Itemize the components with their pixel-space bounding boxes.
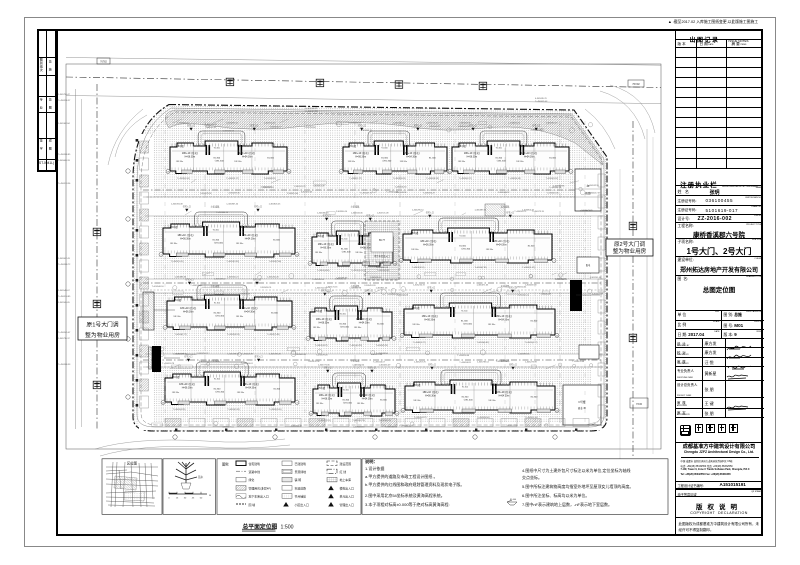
svg-text:3-305217.37: 3-305217.37 — [589, 193, 601, 195]
svg-text:4-305108.84: 4-305108.84 — [395, 192, 407, 194]
svg-text:T+4903(6.76): T+4903(6.76) — [352, 420, 365, 422]
svg-text:T+490594.29: T+490594.29 — [423, 193, 436, 195]
svg-text:管理出入口: 管理出入口 — [340, 502, 355, 507]
svg-text:T+490500.61: T+490500.61 — [241, 363, 254, 365]
svg-text:单元出入口: 单元出入口 — [340, 494, 355, 499]
svg-text:住宅建筑: 住宅建筑 — [249, 461, 261, 466]
svg-text:1-305549.67: 1-305549.67 — [58, 290, 71, 292]
svg-text:60: 60 — [200, 498, 203, 500]
svg-text:T+4903(3.97): T+4903(3.97) — [546, 178, 559, 180]
svg-text:T+4903(8.93): T+4903(8.93) — [227, 334, 240, 336]
svg-text:1-305738.14: 1-305738.14 — [477, 362, 490, 364]
svg-text:H=54.30m: H=54.30m — [244, 311, 255, 313]
svg-text:整为物业用房: 整为物业用房 — [613, 247, 647, 255]
svg-text:H=56.30m: H=56.30m — [355, 156, 366, 158]
svg-text:T+490540.16: T+490540.16 — [152, 286, 165, 288]
svg-text:2-305047.71: 2-305047.71 — [429, 126, 441, 128]
svg-text:绿化: 绿化 — [249, 477, 255, 482]
svg-text:T+4903(3.87): T+4903(3.87) — [315, 345, 328, 347]
svg-text:81.300: 81.300 — [462, 396, 469, 398]
svg-text:18F+1F (住宅): 18F+1F (住宅) — [422, 390, 438, 394]
svg-text:道路中线: 道路中线 — [249, 469, 261, 474]
svg-text:1-305893.56: 1-305893.56 — [518, 353, 530, 355]
svg-text:¶1.300: ¶1.300 — [340, 313, 347, 315]
svg-text:5.图中所标注建筑物高度均指室外地坪至屋顶女儿墙顶的高度。: 5.图中所标注建筑物高度均指室外地坪至屋顶女儿墙顶的高度。 — [522, 483, 633, 489]
svg-text:T+4903(5.27): T+4903(5.27) — [413, 342, 426, 344]
svg-text:18F+1F (住宅): 18F+1F (住宅) — [177, 233, 193, 237]
svg-text:T+4903(0.94): T+4903(0.94) — [177, 178, 190, 180]
svg-text:原2号大门调: 原2号大门调 — [614, 240, 645, 248]
svg-text:已建建筑: 已建建筑 — [295, 461, 307, 466]
svg-text:T+4903(6.82): T+4903(6.82) — [477, 342, 490, 344]
svg-text:81.300: 81.300 — [271, 313, 278, 315]
svg-text:1-305032.03: 1-305032.03 — [349, 123, 362, 125]
svg-text:地下车库出入口: 地下车库出入口 — [249, 494, 269, 499]
svg-text:18F+1F (住宅): 18F+1F (住宅) — [180, 306, 196, 310]
svg-text:¶1.300: ¶1.300 — [214, 302, 221, 304]
svg-text:H=54.30m: H=54.30m — [245, 387, 256, 389]
svg-text:景观绿地: 景观绿地 — [295, 469, 307, 474]
svg-text:81.300: 81.300 — [461, 321, 468, 323]
svg-text:T+4903(4.17): T+4903(4.17) — [525, 342, 538, 344]
svg-text:T+490533.66: T+490533.66 — [385, 427, 398, 429]
svg-text:4.图纸中尺寸为土建外包尺寸标注以米为单位,定位坐标为轴线: 4.图纸中尺寸为土建外包尺寸标注以米为单位,定位坐标为轴线 — [522, 467, 630, 473]
svg-text:18F 86a: 18F 86a — [313, 327, 321, 329]
svg-text:√291.300: √291.300 — [215, 315, 225, 318]
svg-text:81.300: 81.300 — [381, 157, 388, 159]
svg-text:T+4903(0.87): T+4903(0.87) — [414, 417, 427, 419]
svg-text:T+490518.78: T+490518.78 — [162, 363, 175, 365]
svg-text:1-305633.46: 1-305633.46 — [351, 213, 364, 215]
svg-text:T+490035.03: T+490035.03 — [535, 101, 548, 103]
svg-text:18F 86a: 18F 86a — [348, 161, 356, 163]
svg-text:18F+1F (住宅): 18F+1F (住宅) — [239, 151, 255, 155]
svg-text:T+4903(8.96): T+4903(8.96) — [477, 417, 490, 419]
svg-text:4-305803.99: 4-305803.99 — [361, 130, 373, 132]
svg-text:√291.300: √291.300 — [382, 159, 392, 162]
svg-text:T+490557.92: T+490557.92 — [360, 192, 373, 194]
svg-text:T+4903(2.47): T+4903(2.47) — [522, 267, 535, 269]
svg-text:T+490560.15: T+490560.15 — [216, 212, 229, 214]
svg-text:1-305469.18: 1-305469.18 — [525, 285, 538, 287]
svg-text:T+4903(3.12): T+4903(3.12) — [412, 267, 425, 269]
svg-text:说明：: 说明： — [365, 458, 378, 465]
svg-text:H=54.30m: H=54.30m — [359, 322, 370, 324]
svg-text:81.600: 81.600 — [510, 499, 517, 501]
svg-text:86.77: 86.77 — [379, 239, 386, 242]
svg-text:18F 86a: 18F 86a — [400, 161, 408, 163]
svg-text:T+4903(8.53): T+4903(8.53) — [426, 178, 439, 180]
svg-text:1-305750.64: 1-305750.64 — [304, 127, 316, 129]
svg-text:T+4903(7.48): T+4903(7.48) — [267, 334, 280, 336]
svg-text:交点坐标。: 交点坐标。 — [522, 474, 542, 480]
svg-text:18F+1F (住宅): 18F+1F (住宅) — [182, 151, 198, 155]
svg-text:18F 86a: 18F 86a — [516, 161, 524, 163]
svg-text:1-305296.10: 1-305296.10 — [412, 210, 425, 212]
svg-text:81.300: 81.300 — [339, 324, 346, 326]
svg-text:T+4903(1.27): T+4903(1.27) — [349, 178, 362, 180]
svg-text:H=56.30m: H=56.30m — [423, 244, 434, 246]
svg-text:4-305035.70: 4-305035.70 — [535, 98, 548, 100]
svg-text:楼栋出入口: 楼栋出入口 — [340, 485, 355, 490]
svg-text:T+4903(9.24): T+4903(9.24) — [351, 270, 364, 272]
svg-text:小区出入口: 小区出入口 — [295, 502, 310, 507]
svg-text:M: M — [209, 495, 211, 497]
svg-text:1-305790.12: 1-305790.12 — [197, 353, 209, 355]
svg-text:81.300: 81.300 — [214, 388, 221, 390]
svg-text:√291.300: √291.300 — [343, 401, 353, 404]
svg-text:T+490535.90: T+490535.90 — [395, 187, 408, 189]
svg-text:1-305302.84: 1-305302.84 — [58, 123, 71, 125]
svg-text:T+4903(0.29): T+4903(0.29) — [349, 345, 362, 347]
svg-text:H=54.30m: H=54.30m — [496, 244, 507, 246]
svg-text:H=54.30m: H=54.30m — [498, 319, 509, 321]
svg-text:0: 0 — [168, 498, 170, 500]
svg-text:15: 15 — [176, 498, 179, 500]
svg-text:√291.300: √291.300 — [214, 242, 224, 245]
svg-text:T+490540.43: T+490540.43 — [185, 354, 198, 356]
svg-text:1-305773.06: 1-305773.06 — [318, 365, 331, 367]
svg-text:18F+1F (住宅): 18F+1F (住宅) — [243, 382, 259, 386]
svg-text:¶1.300: ¶1.300 — [382, 148, 389, 150]
svg-text:18F+1F (住宅): 18F+1F (住宅) — [464, 151, 480, 155]
svg-text:T+490566.53: T+490566.53 — [555, 279, 568, 281]
svg-text:市政道路: 市政道路 — [295, 485, 307, 490]
svg-text:节点铺装: 节点铺装 — [295, 494, 307, 499]
svg-text:√291.300: √291.300 — [463, 323, 473, 326]
svg-text:81.300: 81.300 — [429, 157, 436, 159]
svg-text:¶1.300: ¶1.300 — [213, 229, 220, 231]
svg-text:1-305505.65: 1-305505.65 — [58, 302, 71, 304]
svg-text:1-305650.21: 1-305650.21 — [227, 277, 240, 279]
svg-text:T+4903(6.43): T+4903(6.43) — [508, 178, 521, 180]
svg-text:T+490579.26: T+490579.26 — [316, 354, 329, 356]
svg-text:4-305319.10: 4-305319.10 — [201, 295, 213, 297]
svg-text:81.300: 81.300 — [377, 324, 384, 326]
svg-text:2-305459.51: 2-305459.51 — [260, 287, 272, 289]
svg-text:18F 86a: 18F 86a — [316, 403, 324, 405]
svg-text:3-305088.92: 3-305088.92 — [498, 192, 510, 194]
svg-text:T+4903(2.65): T+4903(2.65) — [269, 409, 282, 411]
svg-text:H=54.30m: H=54.30m — [242, 156, 253, 158]
svg-text:18F 86a: 18F 86a — [236, 316, 244, 318]
svg-text:T+49003.51: T+49003.51 — [205, 127, 217, 129]
svg-text:¶1.300: ¶1.300 — [462, 387, 469, 389]
svg-text:1-305825.20: 1-305825.20 — [508, 123, 521, 125]
svg-text:18F 86a: 18F 86a — [412, 324, 420, 326]
svg-text:T+490515.65: T+490515.65 — [539, 294, 552, 296]
svg-text:18F+1F (住宅): 18F+1F (住宅) — [319, 393, 335, 397]
svg-text:H=56.30m: H=56.30m — [425, 395, 436, 397]
svg-text:H=56.30m: H=56.30m — [183, 311, 194, 313]
svg-text:T+490516.07: T+490516.07 — [373, 362, 386, 364]
svg-text:3.本子项相对标高±0.000等于绝对标高黄海高程:: 3.本子项相对标高±0.000等于绝对标高黄海高程: — [365, 501, 450, 507]
svg-text:T+490573.39: T+490573.39 — [532, 211, 545, 213]
svg-text:1-305671.63: 1-305671.63 — [477, 285, 490, 287]
svg-text:√291.300: √291.300 — [340, 326, 350, 329]
svg-text:2-305269.36: 2-305269.36 — [228, 192, 240, 194]
svg-text:H=54.30m: H=54.30m — [524, 156, 535, 158]
svg-text:T+4903(8.11): T+4903(8.11) — [264, 178, 277, 180]
svg-text:30: 30 — [184, 498, 187, 500]
svg-text:18F 86a: 18F 86a — [486, 249, 494, 251]
svg-text:18F 86a: 18F 86a — [237, 392, 245, 394]
svg-text:√291.300: √291.300 — [461, 248, 471, 251]
svg-text:3-305023.59: 3-305023.59 — [592, 294, 604, 296]
svg-text:18F 86a: 18F 86a — [357, 403, 365, 405]
svg-text:2-305414.44: 2-305414.44 — [287, 193, 299, 195]
svg-text:1-305754.13: 1-305754.13 — [264, 123, 277, 125]
svg-text:T+4903(1.77): T+4903(1.77) — [175, 334, 188, 336]
svg-text:T+490532.55: T+490532.55 — [587, 185, 600, 187]
svg-text:T+490508.11: T+490508.11 — [459, 362, 472, 364]
svg-text:18F 86a: 18F 86a — [236, 243, 244, 245]
svg-text:H=56.30m: H=56.30m — [322, 398, 333, 400]
svg-text:81.300: 81.300 — [213, 157, 220, 159]
svg-text:T+4903(9.33): T+4903(9.33) — [226, 261, 239, 263]
svg-text:18F+1F (住宅): 18F+1F (住宅) — [353, 151, 369, 155]
svg-text:81.300: 81.300 — [267, 157, 274, 159]
svg-text:T+4903(7.81): T+4903(7.81) — [475, 267, 488, 269]
svg-text:T+490586.72: T+490586.72 — [58, 264, 71, 266]
svg-text:T+490510.77: T+490510.77 — [270, 126, 283, 128]
svg-text:1-305598.54: 1-305598.54 — [227, 354, 240, 356]
svg-text:1-305967.43: 1-305967.43 — [58, 258, 71, 260]
svg-text:√291.300: √291.300 — [215, 390, 225, 393]
svg-text:4-305018.05: 4-305018.05 — [205, 124, 218, 126]
svg-text:18F+1F (住宅): 18F+1F (住宅) — [420, 239, 436, 243]
svg-text:81.300: 81.300 — [214, 313, 221, 315]
svg-text:2-305528.02: 2-305528.02 — [214, 279, 226, 281]
svg-text:¶1.300: ¶1.300 — [343, 390, 350, 392]
svg-text:T+490508.56: T+490508.56 — [376, 353, 389, 355]
svg-text:1:500: 1:500 — [281, 525, 294, 531]
svg-text:1-305257.70: 1-305257.70 — [414, 362, 427, 364]
svg-text:¶1.300: ¶1.300 — [496, 148, 503, 150]
svg-text:18F 86a: 18F 86a — [458, 161, 466, 163]
svg-text:18F 86a: 18F 86a — [172, 392, 180, 394]
svg-text:18F+1F (住宅): 18F+1F (住宅) — [356, 317, 372, 321]
svg-text:1-305867.44: 1-305867.44 — [226, 204, 239, 206]
svg-text:T+490513.96: T+490513.96 — [58, 183, 71, 185]
svg-text:b.甲方提供的红线图和政府规划管理资料及现状电子版。: b.甲方提供的红线图和政府规划管理资料及现状电子版。 — [365, 481, 464, 487]
svg-text:T+4903(1.45): T+4903(1.45) — [171, 261, 184, 263]
svg-text:18F 86a: 18F 86a — [355, 252, 363, 254]
svg-text:18F+1F (住宅): 18F+1F (住宅) — [179, 382, 195, 386]
svg-text:2-305174.16: 2-305174.16 — [326, 287, 338, 289]
svg-text:2-305154.10: 2-305154.10 — [335, 278, 347, 280]
svg-text:¶1.300: ¶1.300 — [461, 310, 468, 312]
svg-text:T+490545.07: T+490545.07 — [58, 332, 71, 334]
svg-text:81.300: 81.300 — [380, 399, 387, 401]
svg-text:81.300: 81.300 — [531, 396, 538, 398]
svg-text:2-305960.14: 2-305960.14 — [336, 211, 348, 213]
svg-text:T+4903(3.17): T+4903(3.17) — [226, 178, 239, 180]
svg-text:T+490565.73: T+490565.73 — [514, 211, 527, 213]
svg-text:T+490531.04: T+490531.04 — [312, 279, 325, 281]
svg-text:18F+1F (住宅): 18F+1F (住宅) — [242, 233, 258, 237]
svg-text:地上车库: 地上车库 — [340, 477, 352, 482]
svg-text:H=56.30m: H=56.30m — [320, 247, 331, 249]
svg-text:2.图中采用北京54坐标系统及黄海高程系统。: 2.图中采用北京54坐标系统及黄海高程系统。 — [365, 492, 445, 498]
svg-text:红 线: 红 线 — [340, 469, 347, 474]
svg-text:¶1.300: ¶1.300 — [460, 235, 467, 237]
svg-text:2-305021.01: 2-305021.01 — [518, 294, 530, 296]
svg-text:T+4903(0.97): T+4903(0.97) — [459, 178, 472, 180]
svg-text:管理用房(多层4F): 管理用房(多层4F) — [249, 485, 272, 490]
svg-text:区位图: 区位图 — [127, 461, 138, 466]
svg-text:18F 86a: 18F 86a — [488, 324, 496, 326]
svg-text:H=54.30m: H=54.30m — [362, 398, 373, 400]
svg-text:18F 86a: 18F 86a — [234, 161, 242, 163]
svg-text:1-305370.28: 1-305370.28 — [269, 354, 282, 356]
svg-text:1-305654.14: 1-305654.14 — [177, 123, 190, 125]
svg-text:18F+1F (住宅): 18F+1F (住宅) — [404, 151, 420, 155]
svg-text:4-305003.33: 4-305003.33 — [458, 126, 470, 128]
svg-text:1-305273.98: 1-305273.98 — [525, 362, 538, 364]
svg-text:18F+1F (住宅): 18F+1F (住宅) — [422, 314, 438, 318]
svg-text:1-305574.25: 1-305574.25 — [426, 123, 439, 125]
svg-text:1-305603.35: 1-305603.35 — [459, 123, 472, 125]
svg-text:H=56.30m: H=56.30m — [182, 387, 193, 389]
svg-text:18F 86a: 18F 86a — [488, 400, 496, 402]
svg-text:整为物业用房: 整为物业用房 — [85, 331, 120, 339]
svg-text:T+4903(9.03): T+4903(9.03) — [393, 178, 406, 180]
svg-text:18F+1F (住宅): 18F+1F (住宅) — [316, 317, 332, 321]
svg-text:T+490578.48: T+490578.48 — [572, 361, 585, 363]
svg-text:H=56.30m: H=56.30m — [180, 238, 191, 240]
svg-text:4-305527.51: 4-305527.51 — [222, 427, 234, 429]
svg-text:1-305401.56: 1-305401.56 — [547, 193, 559, 195]
svg-text:81.300: 81.300 — [495, 157, 502, 159]
svg-text:T+490596.57: T+490596.57 — [58, 100, 71, 102]
svg-text:X=305080.91: X=305080.91 — [305, 108, 318, 110]
svg-text:H=54.30m: H=54.30m — [499, 395, 510, 397]
svg-text:1-305238.64: 1-305238.64 — [393, 123, 406, 125]
svg-text:T+4903(5.51): T+4903(5.51) — [376, 345, 389, 347]
svg-text:4-305869.86: 4-305869.86 — [553, 186, 565, 188]
svg-text:Y=490012.28: Y=490012.28 — [305, 111, 318, 113]
svg-text:18F 86a: 18F 86a — [315, 252, 323, 254]
svg-text:1-305809.35: 1-305809.35 — [239, 294, 251, 296]
svg-text:81.300: 81.300 — [341, 249, 348, 251]
svg-text:18F+1F (住宅): 18F+1F (住宅) — [318, 242, 334, 246]
svg-text:7.图中nF表示建筑地上层数，-nF表示地下室层数。: 7.图中nF表示建筑地上层数，-nF表示地下室层数。 — [522, 501, 612, 507]
svg-text:H=56.30m: H=56.30m — [319, 322, 330, 324]
svg-text:原1号大门调: 原1号大门调 — [86, 321, 118, 329]
svg-text:18F+1F (住宅): 18F+1F (住宅) — [359, 393, 375, 397]
svg-text:√291.300: √291.300 — [341, 251, 351, 254]
svg-text:1-305826.05: 1-305826.05 — [269, 204, 282, 206]
svg-text:1-305686.34: 1-305686.34 — [175, 277, 188, 279]
svg-text:6.图中所注坐标、标高均以米为单位。: 6.图中所注坐标、标高均以米为单位。 — [522, 492, 589, 498]
svg-text:1-305642.20: 1-305642.20 — [352, 365, 365, 367]
svg-text:3-305019.43: 3-305019.43 — [301, 192, 313, 194]
svg-text:铺 砌: 铺 砌 — [295, 477, 302, 482]
svg-text:3-305524.08: 3-305524.08 — [397, 294, 409, 296]
svg-text:√291.300: √291.300 — [463, 398, 473, 401]
svg-text:18F 86a: 18F 86a — [176, 161, 184, 163]
svg-text:81.300: 81.300 — [342, 399, 349, 401]
svg-text:H=56.30m: H=56.30m — [467, 156, 478, 158]
svg-text:81.300: 81.300 — [273, 388, 280, 390]
svg-text:¶1.300: ¶1.300 — [214, 148, 221, 150]
svg-text:T+490528.80: T+490528.80 — [190, 285, 203, 287]
svg-text:18F+1F (住宅): 18F+1F (住宅) — [241, 306, 257, 310]
svg-text:商业 3F: 商业 3F — [578, 406, 587, 410]
svg-text:81.300: 81.300 — [528, 246, 535, 248]
svg-text:1-305080.70: 1-305080.70 — [317, 213, 330, 215]
svg-text:图例:: 图例: — [222, 462, 229, 467]
svg-text:81.300: 81.300 — [531, 321, 538, 323]
svg-text:围 墙: 围 墙 — [249, 502, 256, 507]
svg-text:T+490550.64: T+490550.64 — [514, 286, 527, 288]
svg-text:76X02: 76X02 — [632, 82, 640, 86]
svg-text:¶1.300: ¶1.300 — [341, 238, 348, 240]
svg-text:3-305651.28: 3-305651.28 — [313, 186, 325, 188]
svg-text:3-305278.05: 3-305278.05 — [200, 193, 212, 195]
svg-text:a.甲方提供的道路及市政工程设计图纸 。: a.甲方提供的道路及市政工程设计图纸 。 — [365, 473, 437, 479]
svg-text:81.300: 81.300 — [212, 240, 219, 242]
svg-text:N号楼: N号楼 — [578, 400, 585, 404]
svg-text:T+490522.18: T+490522.18 — [496, 361, 509, 363]
svg-text:¶1.300: ¶1.300 — [214, 379, 221, 381]
svg-text:√291.300: √291.300 — [215, 159, 225, 162]
svg-text:18F+1F (住宅): 18F+1F (住宅) — [496, 314, 512, 318]
svg-text:81.300: 81.300 — [273, 240, 280, 242]
svg-text:18F 86a: 18F 86a — [170, 243, 178, 245]
svg-text:2-305435.09: 2-305435.09 — [370, 277, 382, 279]
svg-text:18F 86a: 18F 86a — [411, 249, 419, 251]
svg-text:1-305407.62: 1-305407.62 — [263, 187, 275, 189]
svg-text:1.设计依据: 1.设计依据 — [365, 465, 384, 471]
svg-text:81.300: 81.300 — [459, 246, 466, 248]
svg-text:T+490594.06: T+490594.06 — [457, 355, 470, 357]
svg-text:建设范围: 建设范围 — [340, 461, 352, 466]
svg-text:T+4903(9.51): T+4903(9.51) — [227, 409, 240, 411]
svg-text:45: 45 — [192, 498, 195, 500]
svg-text:81.300: 81.300 — [549, 157, 556, 159]
svg-text:1-305065.49: 1-305065.49 — [379, 365, 392, 367]
svg-text:T+4903(7.68): T+4903(7.68) — [269, 261, 282, 263]
svg-text:H=54.30m: H=54.30m — [406, 156, 417, 158]
svg-text:3-305613.31: 3-305613.31 — [223, 130, 235, 132]
svg-text:T+4903(4.80): T+4903(4.80) — [317, 270, 330, 272]
svg-text:18F 86a: 18F 86a — [413, 400, 421, 402]
svg-text:1-305669.33: 1-305669.33 — [58, 160, 71, 162]
svg-text:X=305084.63: X=305084.63 — [376, 262, 389, 264]
svg-text:18F+1F (住宅): 18F+1F (住宅) — [493, 239, 509, 243]
svg-text:7X30: 7X30 — [636, 402, 643, 406]
svg-text:1-305250.20: 1-305250.20 — [267, 277, 280, 279]
svg-text:76782: 76782 — [100, 61, 107, 64]
svg-text:4-305403.13: 4-305403.13 — [353, 427, 365, 429]
svg-text:1-305721.08: 1-305721.08 — [377, 213, 390, 215]
svg-text:3-305463.65: 3-305463.65 — [295, 354, 307, 356]
svg-text:T+490586.85: T+490586.85 — [58, 154, 71, 156]
svg-text:1-305374.74: 1-305374.74 — [294, 186, 306, 188]
svg-text:H=56.30m: H=56.30m — [185, 156, 196, 158]
svg-text:1-305735.37: 1-305735.37 — [58, 338, 71, 340]
svg-text:3-305390.10: 3-305390.10 — [580, 210, 592, 212]
svg-text:T+490586.93: T+490586.93 — [58, 364, 71, 366]
svg-text:1-305790.47: 1-305790.47 — [58, 94, 71, 96]
svg-text:H=56.30m: H=56.30m — [424, 319, 435, 321]
svg-text:1-305281.31: 1-305281.31 — [226, 123, 239, 125]
svg-text:1-305284.19: 1-305284.19 — [546, 123, 559, 125]
svg-text:1-305094.48: 1-305094.48 — [171, 204, 184, 206]
svg-text:18F 86a: 18F 86a — [354, 327, 362, 329]
